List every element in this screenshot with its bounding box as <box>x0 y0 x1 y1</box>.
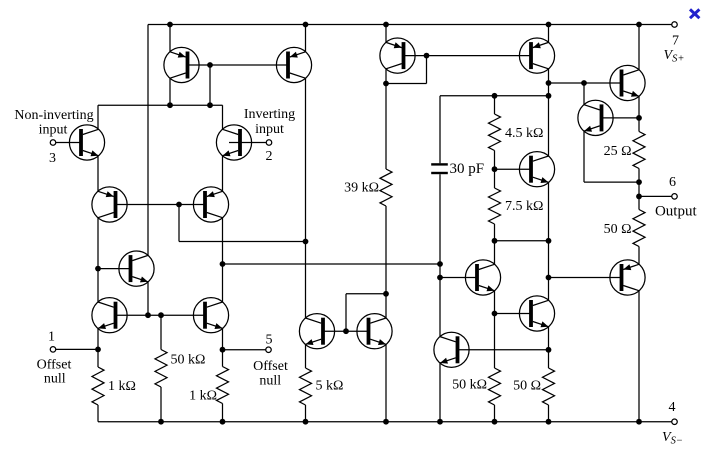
wire Q3 collector to Q5 collector <box>97 218 99 302</box>
svg-text:1 kΩ: 1 kΩ <box>189 389 217 404</box>
wire Q16 emitter to Q17 base node <box>494 291 496 314</box>
junction dot (548.5,95.8) <box>546 93 552 99</box>
svg-text:Output: Output <box>655 204 698 220</box>
svg-text:1: 1 <box>48 330 55 345</box>
wire to R5 top <box>385 84 387 170</box>
resistor R11 50k <box>489 368 501 405</box>
wire Q17 base <box>495 313 532 315</box>
svg-text:2: 2 <box>266 149 273 164</box>
wire Q20 collector to bottom rail <box>638 291 640 422</box>
svg-text:5 kΩ: 5 kΩ <box>316 379 344 394</box>
junction dot (222.5,349.7) <box>220 347 226 353</box>
transistor Q8 <box>164 47 199 82</box>
wire Q16 base <box>440 277 477 279</box>
junction dot (639,24.5) <box>636 22 642 28</box>
svg-text:Inverting: Inverting <box>244 107 295 122</box>
junction dot (494.5,313.5) <box>492 311 498 317</box>
wire Q4 collector to Q6 collector <box>222 218 224 302</box>
junction dot (639,421.7) <box>636 419 642 425</box>
transistor Q22 <box>434 332 469 367</box>
svg-text:50 kΩ: 50 kΩ <box>171 353 206 368</box>
resistor R9 25ohm <box>633 132 645 169</box>
junction dot (440,421.7) <box>437 419 443 425</box>
junction dot (170,105.2) <box>167 102 173 108</box>
wire Q1 emitter to Q3 emitter <box>97 156 99 192</box>
junction dot (494.5,421.7) <box>492 419 498 425</box>
wire R4 bottom to rail <box>305 405 307 422</box>
svg-text:39 kΩ: 39 kΩ <box>344 181 379 196</box>
wire Q10-Q11 base tie horizontal <box>346 293 386 295</box>
wire Q13 emitter to rail <box>548 25 550 43</box>
svg-text:7.5 kΩ: 7.5 kΩ <box>505 199 543 214</box>
junction dot (639,196.4) <box>636 194 642 200</box>
svg-text:50 kΩ: 50 kΩ <box>452 378 487 393</box>
junction dot (161,421.7) <box>158 419 164 425</box>
svg-text:25 Ω: 25 Ω <box>604 144 632 159</box>
wire Q17 emitter down <box>548 327 550 350</box>
transistor Q6 <box>193 298 228 333</box>
junction dot (305.5,24.5) <box>303 22 309 28</box>
wire Q13 collector down <box>548 69 550 96</box>
wire to resistor R12 top <box>548 350 550 368</box>
svg-text:1 kΩ: 1 kΩ <box>108 379 136 394</box>
transistor Q9 <box>276 47 311 82</box>
wire to R7 top <box>494 96 496 114</box>
transistor Q11 <box>357 314 392 349</box>
wire Q2 emitter to Q4 emitter <box>222 156 224 192</box>
wire V+ top rail <box>148 24 672 26</box>
wire Q3-Q4 base drop <box>178 205 180 242</box>
wire Q3-Q4 base link <box>115 204 205 206</box>
svg-text:3: 3 <box>49 151 56 166</box>
blue close marker <box>690 9 699 18</box>
junction dot (440,264) <box>437 261 443 267</box>
svg-text:input: input <box>255 122 284 137</box>
junction dot (222.5,264) <box>220 261 226 267</box>
wire Q7 base <box>98 268 132 270</box>
transistor Q2 <box>216 125 251 160</box>
svg-text:Offset: Offset <box>37 358 72 373</box>
transistor Q7 <box>119 251 154 286</box>
terminal pin 1 <box>50 347 56 353</box>
junction dot (494.5,95.8) <box>492 93 498 99</box>
wire terminal 1 line <box>56 348 98 350</box>
wire Q8 emitter to rail <box>169 25 171 52</box>
terminal pin 4 <box>672 419 678 425</box>
wire to Q2 collector <box>222 105 224 129</box>
wire C1 bottom to Q22 collector <box>439 174 441 336</box>
wire node to R8 top <box>494 169 496 188</box>
wire Q19 collector up <box>583 83 585 105</box>
resistor R12 50ohm <box>543 368 555 405</box>
wire Q19 emitter to R9 bottom <box>584 181 639 183</box>
svg-text:50 Ω: 50 Ω <box>513 379 541 394</box>
wire R2 bottom to rail <box>222 404 224 422</box>
wire R9 bottom to output node <box>638 169 640 197</box>
junction dot (210,105.2) <box>207 102 213 108</box>
wire input collectors bus <box>98 104 223 106</box>
wire Q9 emitter to rail <box>305 25 307 52</box>
wire to R9 top <box>638 118 640 132</box>
capacitor C1 30pF <box>431 163 448 174</box>
transistor Q10 <box>299 314 334 349</box>
svg-text:7: 7 <box>672 34 679 49</box>
resistor R1 1k <box>92 367 104 405</box>
wire R8 node to Q13 collector node <box>495 240 549 242</box>
resistor R3 50k <box>155 350 167 388</box>
junction dot (548.5,24.5) <box>546 22 552 28</box>
wire V- bottom rail <box>98 421 672 423</box>
svg-text:4: 4 <box>669 400 676 415</box>
svg-text:Offset: Offset <box>253 359 288 374</box>
junction dot (386,421.7) <box>383 419 389 425</box>
resistor R8 7.5k <box>489 188 501 224</box>
wire R12 bottom to rail <box>548 405 550 422</box>
junction dot (548.5,349.8) <box>546 347 552 353</box>
resistor R5 39k <box>380 169 392 206</box>
wire Q14 emitter down <box>638 96 640 118</box>
wire output node to R10 top <box>638 196 640 209</box>
junction dot (639,182.1) <box>636 179 642 185</box>
wire Q3-Q4 bases to Q10 collector <box>179 241 306 243</box>
resistor R4 5k <box>300 368 312 405</box>
transistor Q13 <box>519 38 554 73</box>
junction dot (494.5,169.2) <box>492 166 498 172</box>
wire Q12 base-collector tie horizontal <box>386 83 427 85</box>
junction dot (305.5,421.7) <box>303 419 309 425</box>
transistor Q14 <box>610 65 645 100</box>
transistor Q17 <box>519 296 554 331</box>
wire Q12 base-collector tie vertical <box>426 56 428 84</box>
junction dot (98,349.4) <box>95 347 101 353</box>
junction dot (494.5,240.8) <box>492 238 498 244</box>
svg-text:4.5 kΩ: 4.5 kΩ <box>505 126 543 141</box>
junction dot (584,83) <box>581 80 587 86</box>
wire Q14 base <box>549 82 622 84</box>
svg-text:50 Ω: 50 Ω <box>604 222 632 237</box>
svg-text:Non-inverting: Non-inverting <box>14 108 93 123</box>
svg-text:VS−: VS− <box>662 430 683 447</box>
wire R8 bottom down <box>494 224 496 241</box>
terminal pin 3 <box>50 140 56 146</box>
junction dot (386,293.8) <box>383 291 389 297</box>
wire R10 bottom to Q20 emitter <box>638 247 640 265</box>
wire Q22 emitter to rail <box>439 363 441 422</box>
wire R3 bottom to rail <box>160 387 162 422</box>
wire Q22 base to Q17 emitter node <box>459 349 549 351</box>
junction dot (639,117.9) <box>636 115 642 121</box>
wire Q20 base <box>549 277 622 279</box>
wire node to Q18 collector <box>548 96 550 156</box>
junction dot (161,315.2) <box>158 312 164 318</box>
svg-text:VS+: VS+ <box>664 48 685 65</box>
wire gain node horizontal <box>223 263 441 265</box>
wire Q19 emitter down <box>583 131 585 182</box>
wire to R1 top <box>97 349 99 367</box>
wire Q18 base <box>495 168 532 170</box>
wire Q6 emitter down <box>222 328 224 349</box>
terminal pin 7 <box>672 22 678 28</box>
wire to R2 top <box>222 350 224 367</box>
svg-text:null: null <box>259 374 281 389</box>
junction dot (170,24.5) <box>167 22 173 28</box>
junction dot (386,24.5) <box>383 22 389 28</box>
wire compensation node horizontal <box>440 95 549 97</box>
wire to R3 top <box>160 315 162 349</box>
junction dot (148,315.2) <box>145 312 151 318</box>
wire Q8-Q9 base link <box>188 64 289 66</box>
wire R5 bottom to Q11 collector <box>385 206 387 318</box>
svg-text:5: 5 <box>266 333 273 348</box>
svg-text:6: 6 <box>669 175 676 190</box>
transistor Q20 <box>610 260 645 295</box>
junction dot (440,277.5) <box>437 275 443 281</box>
wire Q9 collector down to Q10 collector <box>305 78 307 318</box>
wire to R11 top <box>494 314 496 369</box>
wire Q11 emitter to rail <box>385 344 387 421</box>
transistor Q19 <box>578 100 613 135</box>
resistor R7 4.5k <box>489 114 501 150</box>
wire Q19 base <box>602 117 640 119</box>
wire Q12 emitter to rail <box>385 25 387 43</box>
transistor Q12 <box>380 38 415 73</box>
wire V+ rail left drop to Q7 collector <box>147 25 149 256</box>
wire output terminal line <box>639 195 672 197</box>
transistor Q18 <box>519 152 554 187</box>
junction dot (305.5,241.5) <box>303 239 309 245</box>
wire Q8 collector down <box>169 78 171 105</box>
wire R11 bottom to rail <box>494 405 496 422</box>
wire node to Q17 collector <box>548 241 550 300</box>
wire terminal 5 line <box>223 349 266 351</box>
junction dot (210,65) <box>207 62 213 68</box>
wire Q5-Q6 base link <box>116 314 206 316</box>
wire Q2 base to terminal 2 <box>229 142 266 144</box>
wire Q10-Q11 base link <box>323 330 369 332</box>
junction dot (222.5,421.7) <box>220 419 226 425</box>
transistor Q4 <box>193 187 228 222</box>
wire Q12-Q13 base link <box>404 55 532 57</box>
terminal pin 5 <box>266 347 272 353</box>
junction dot (426.5,55.6) <box>424 53 430 59</box>
junction dot (98,268.6) <box>95 266 101 272</box>
junction dot (346,331.2) <box>343 328 349 334</box>
wire Q10 emitter to R4 <box>305 344 307 368</box>
wire Q16 collector up <box>494 241 496 264</box>
transistor Q1 <box>69 125 104 160</box>
svg-text:null: null <box>44 372 66 387</box>
terminal pin 6 <box>672 194 678 200</box>
wire Q12 collector down <box>385 69 387 84</box>
wire Q14 collector to rail <box>638 25 640 70</box>
junction dot (548.5,421.7) <box>546 419 552 425</box>
junction dot (179,204.5) <box>176 202 182 208</box>
wire Q18 emitter down <box>548 182 550 240</box>
junction dot (548.5,277.5) <box>546 275 552 281</box>
wire Q10-Q11 base tie vertical <box>345 294 347 331</box>
wire to C1 top plate <box>439 96 441 164</box>
junction dot (386,83.5) <box>383 81 389 87</box>
wire Q5 emitter down <box>97 328 99 349</box>
wire Q7 emitter drop <box>147 282 149 315</box>
transistor Q5 <box>92 298 127 333</box>
wire R7 bottom to node <box>494 151 496 170</box>
wire R1 bottom to rail <box>97 405 99 422</box>
wire terminal 3 to Q1 base <box>56 142 82 144</box>
wire base drop Q8/Q9 <box>209 65 211 105</box>
svg-text:input: input <box>39 123 68 138</box>
transistor Q3 <box>92 187 127 222</box>
junction dot (548.5,83) <box>546 80 552 86</box>
resistor R10 50ohm <box>633 210 645 247</box>
junction dot (548.5,240.8) <box>546 238 552 244</box>
resistor R2 1k <box>217 367 229 404</box>
svg-text:30 pF: 30 pF <box>450 161 485 177</box>
transistor Q16 <box>465 260 500 295</box>
wire to Q1 collector <box>97 105 99 129</box>
terminal pin 2 <box>266 140 272 146</box>
